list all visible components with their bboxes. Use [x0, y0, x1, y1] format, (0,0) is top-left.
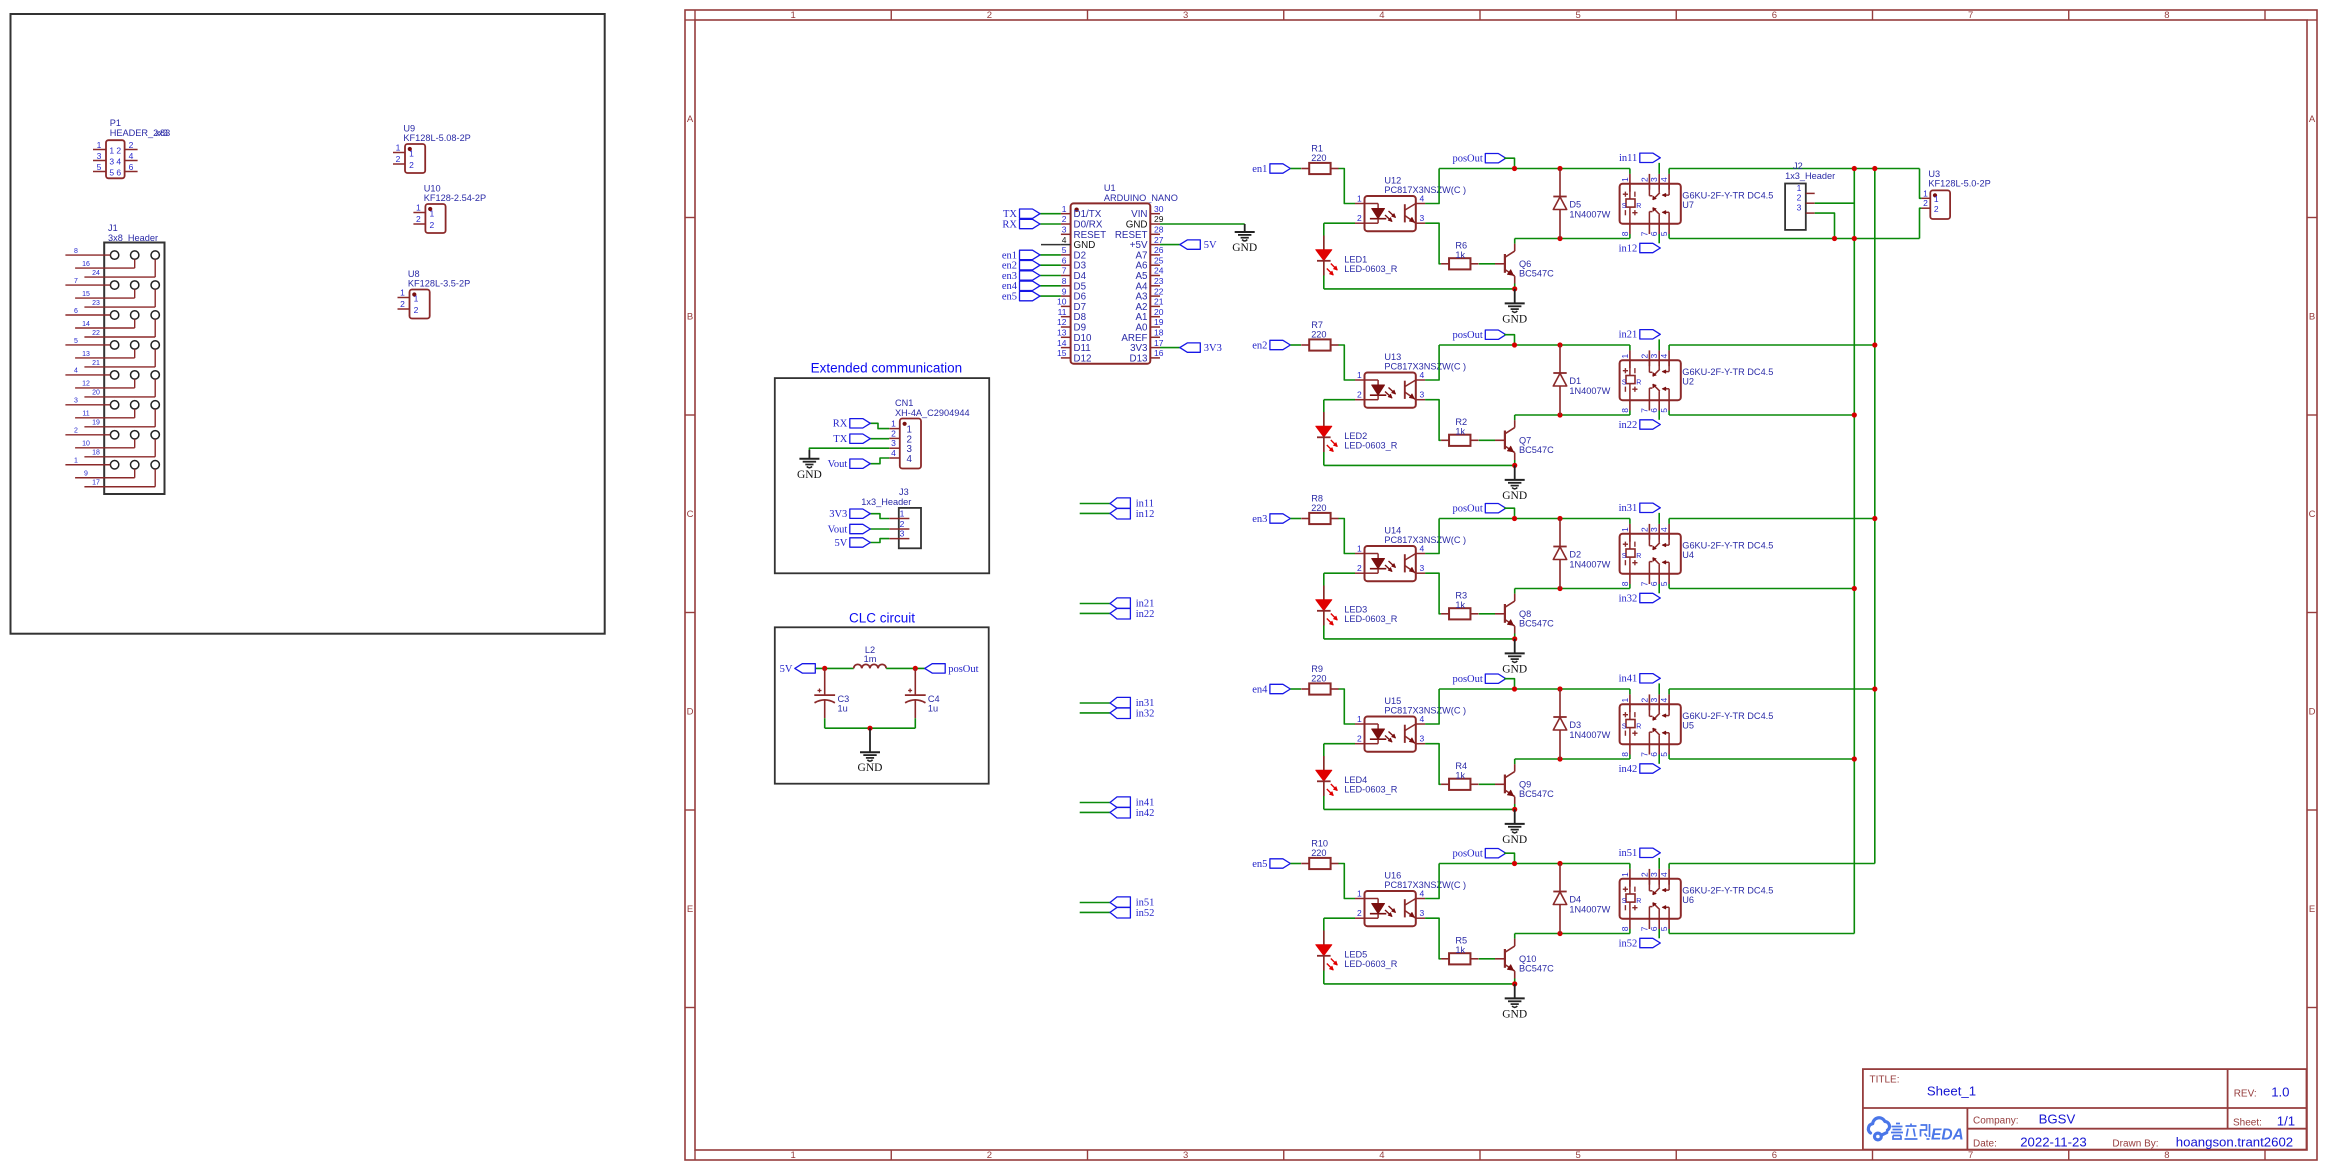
svg-text:S: S: [1622, 553, 1627, 560]
svg-text:A: A: [2309, 114, 2316, 125]
svg-text:in42: in42: [1136, 808, 1155, 819]
svg-text:3: 3: [1183, 10, 1188, 21]
svg-text:3: 3: [1649, 527, 1659, 532]
svg-text:4: 4: [1062, 235, 1067, 245]
svg-text:1x3_Header: 1x3_Header: [861, 497, 911, 507]
svg-text:posOut: posOut: [1452, 849, 1482, 860]
svg-text:10: 10: [82, 441, 90, 448]
svg-text:PC817X3NSZW(C ): PC817X3NSZW(C ): [1384, 535, 1466, 545]
svg-text:LED-0603_R: LED-0603_R: [1344, 614, 1397, 624]
svg-text:in12: in12: [1619, 243, 1638, 254]
svg-text:3V3: 3V3: [829, 509, 847, 520]
svg-text:20: 20: [92, 390, 100, 397]
svg-text:2: 2: [400, 299, 405, 309]
svg-text:U2: U2: [1682, 377, 1694, 387]
svg-text:R: R: [1636, 723, 1641, 730]
svg-text:1: 1: [1357, 714, 1362, 724]
svg-text:5: 5: [1659, 231, 1669, 236]
svg-text:8: 8: [1620, 231, 1630, 236]
svg-text:2: 2: [1934, 204, 1939, 214]
svg-text:5: 5: [1062, 245, 1067, 255]
svg-text:4: 4: [74, 368, 78, 375]
svg-text:en5: en5: [1002, 292, 1017, 303]
svg-text:3: 3: [74, 398, 78, 405]
svg-text:6: 6: [1649, 581, 1659, 586]
svg-text:Date:: Date:: [1973, 1138, 1997, 1149]
svg-text:G6KU-2F-Y-TR DC4.5: G6KU-2F-Y-TR DC4.5: [1682, 367, 1773, 377]
svg-text:in32: in32: [1619, 593, 1638, 604]
svg-text:13: 13: [82, 351, 90, 358]
svg-text:KF128L-3.5-2P: KF128L-3.5-2P: [408, 279, 470, 289]
svg-text:4: 4: [1379, 10, 1384, 21]
svg-text:3: 3: [97, 151, 102, 161]
svg-text:8: 8: [1620, 581, 1630, 586]
svg-text:28: 28: [1154, 225, 1164, 235]
svg-text:5V: 5V: [1204, 240, 1217, 251]
svg-text:Q6: Q6: [1519, 259, 1531, 269]
svg-text:BGSV: BGSV: [2039, 1111, 2076, 1126]
svg-text:2: 2: [1357, 563, 1362, 573]
svg-text:8: 8: [1620, 926, 1630, 931]
svg-text:D1: D1: [1569, 376, 1581, 386]
svg-text:15: 15: [1057, 348, 1067, 358]
svg-text:1k: 1k: [1455, 945, 1465, 955]
svg-text:1u: 1u: [928, 703, 938, 713]
svg-text:5: 5: [74, 338, 78, 345]
svg-text:3: 3: [1797, 203, 1802, 213]
svg-text:4: 4: [907, 454, 913, 465]
svg-text:220: 220: [1311, 848, 1326, 858]
svg-text:4: 4: [1379, 1150, 1384, 1161]
svg-text:R: R: [1636, 203, 1641, 210]
svg-text:GND: GND: [1502, 834, 1527, 846]
svg-text:1: 1: [109, 145, 114, 155]
svg-text:1: 1: [74, 458, 78, 465]
svg-text:3: 3: [1420, 390, 1425, 400]
svg-text:posOut: posOut: [1452, 330, 1482, 341]
svg-text:2: 2: [414, 305, 419, 315]
svg-text:E: E: [2309, 904, 2315, 915]
svg-text:en3: en3: [1252, 514, 1267, 525]
svg-text:1: 1: [430, 208, 435, 218]
svg-text:G6KU-2F-Y-TR DC4.5: G6KU-2F-Y-TR DC4.5: [1682, 886, 1773, 896]
svg-text:1: 1: [1062, 204, 1067, 214]
svg-text:8: 8: [1062, 276, 1067, 286]
svg-text:U8: U8: [408, 269, 420, 279]
svg-text:1: 1: [1620, 527, 1630, 532]
svg-text:4: 4: [1420, 194, 1425, 204]
svg-text:5: 5: [1659, 408, 1669, 413]
svg-text:1: 1: [416, 203, 421, 213]
svg-text:Sheet:: Sheet:: [2233, 1118, 2262, 1129]
svg-text:8: 8: [2164, 1150, 2169, 1161]
svg-text:GND: GND: [1502, 663, 1527, 675]
svg-text:Company:: Company:: [1973, 1115, 2019, 1126]
svg-text:10: 10: [1057, 297, 1067, 307]
svg-text:GND: GND: [1502, 490, 1527, 502]
svg-text:2: 2: [1639, 354, 1649, 359]
svg-text:posOut: posOut: [948, 664, 978, 675]
svg-text:posOut: posOut: [1452, 154, 1482, 165]
svg-text:J1: J1: [108, 223, 118, 233]
svg-text:Sheet_1: Sheet_1: [1927, 1083, 1976, 1098]
svg-text:4: 4: [1420, 544, 1425, 554]
svg-text:6: 6: [1772, 1150, 1777, 1161]
svg-text:3: 3: [1649, 698, 1659, 703]
svg-text:3V3: 3V3: [1204, 343, 1222, 354]
svg-text:3: 3: [1183, 1150, 1188, 1161]
svg-text:in42: in42: [1619, 764, 1638, 775]
svg-text:4: 4: [891, 448, 896, 458]
svg-text:23: 23: [92, 300, 100, 307]
svg-text:R: R: [1636, 379, 1641, 386]
svg-text:3: 3: [1420, 908, 1425, 918]
svg-text:6: 6: [1772, 10, 1777, 21]
svg-text:19: 19: [92, 420, 100, 427]
svg-text:Extended communication: Extended communication: [811, 361, 963, 376]
svg-text:5: 5: [1575, 10, 1580, 21]
svg-text:BC547C: BC547C: [1519, 789, 1554, 799]
svg-text:S: S: [1622, 898, 1627, 905]
svg-text:4: 4: [129, 151, 134, 161]
svg-text:LED3: LED3: [1344, 605, 1367, 615]
svg-text:BC547C: BC547C: [1519, 963, 1554, 973]
svg-text:U10: U10: [424, 184, 441, 194]
svg-text:in21: in21: [1619, 330, 1638, 341]
svg-text:D4: D4: [1569, 895, 1581, 905]
svg-text:2: 2: [987, 10, 992, 21]
svg-text:27: 27: [1154, 235, 1164, 245]
svg-text:x83: x83: [155, 128, 170, 138]
svg-text:4: 4: [1420, 714, 1425, 724]
svg-text:2: 2: [74, 428, 78, 435]
svg-text:E: E: [687, 904, 693, 915]
svg-text:6: 6: [1649, 926, 1659, 931]
svg-text:1: 1: [1923, 188, 1928, 198]
svg-text:6: 6: [116, 167, 121, 177]
svg-text:2: 2: [1639, 177, 1649, 182]
svg-text:1x3_Header: 1x3_Header: [1785, 171, 1835, 181]
svg-text:220: 220: [1311, 153, 1326, 163]
svg-text:2: 2: [1923, 198, 1928, 208]
svg-text:LED-0603_R: LED-0603_R: [1344, 441, 1397, 451]
svg-text:18: 18: [92, 450, 100, 457]
svg-text:4: 4: [116, 156, 121, 166]
svg-text:30: 30: [1154, 204, 1164, 214]
svg-text:24: 24: [1154, 266, 1164, 276]
svg-text:6: 6: [129, 162, 134, 172]
svg-text:LED4: LED4: [1344, 775, 1367, 785]
svg-text:2: 2: [1639, 872, 1649, 877]
svg-text:26: 26: [1154, 245, 1164, 255]
svg-text:1: 1: [1620, 354, 1630, 359]
svg-text:7: 7: [1639, 581, 1649, 586]
svg-text:1: 1: [1620, 698, 1630, 703]
svg-text:1: 1: [891, 419, 896, 429]
svg-text:LED-0603_R: LED-0603_R: [1344, 264, 1397, 274]
svg-text:hoangson.trant2602: hoangson.trant2602: [2176, 1134, 2293, 1149]
svg-text:R: R: [1636, 898, 1641, 905]
svg-text:G6KU-2F-Y-TR DC4.5: G6KU-2F-Y-TR DC4.5: [1682, 191, 1773, 201]
svg-text:4: 4: [1420, 370, 1425, 380]
svg-text:J2: J2: [1793, 161, 1803, 171]
svg-text:2: 2: [1357, 908, 1362, 918]
svg-text:12: 12: [82, 381, 90, 388]
svg-text:1: 1: [97, 140, 102, 150]
svg-text:7: 7: [74, 278, 78, 285]
svg-text:4: 4: [1659, 872, 1669, 877]
svg-text:9: 9: [1062, 286, 1067, 296]
svg-text:D13: D13: [1130, 353, 1149, 364]
svg-text:1N4007W: 1N4007W: [1569, 386, 1610, 396]
svg-text:1: 1: [1797, 183, 1802, 193]
svg-text:6: 6: [1649, 231, 1659, 236]
svg-text:KF128-2.54-2P: KF128-2.54-2P: [424, 193, 486, 203]
svg-text:220: 220: [1311, 503, 1326, 513]
svg-text:3: 3: [1420, 213, 1425, 223]
svg-text:7: 7: [1968, 1150, 1973, 1161]
svg-text:S: S: [1622, 723, 1627, 730]
svg-text:1: 1: [1357, 889, 1362, 899]
svg-text:8: 8: [2164, 10, 2169, 21]
svg-text:in41: in41: [1619, 674, 1638, 685]
svg-text:6: 6: [1649, 752, 1659, 757]
svg-text:4: 4: [1659, 354, 1669, 359]
svg-text:GND: GND: [1502, 313, 1527, 325]
svg-text:LED2: LED2: [1344, 431, 1367, 441]
svg-text:2: 2: [1062, 214, 1067, 224]
svg-text:EDA: EDA: [1931, 1127, 1964, 1144]
svg-text:3: 3: [900, 529, 905, 539]
svg-text:LED-0603_R: LED-0603_R: [1344, 785, 1397, 795]
svg-text:1: 1: [900, 509, 905, 519]
svg-text:18: 18: [1154, 328, 1164, 338]
svg-text:D: D: [2309, 707, 2316, 718]
svg-text:1: 1: [414, 293, 419, 303]
svg-text:D3: D3: [1569, 720, 1581, 730]
svg-text:2: 2: [129, 140, 134, 150]
svg-text:Q9: Q9: [1519, 779, 1531, 789]
svg-text:7: 7: [1639, 752, 1649, 757]
svg-text:22: 22: [92, 330, 100, 337]
svg-text:1: 1: [1357, 370, 1362, 380]
svg-text:ARDUINO_NANO: ARDUINO_NANO: [1104, 193, 1178, 203]
svg-text:2: 2: [1639, 527, 1649, 532]
svg-text:5V: 5V: [834, 538, 847, 549]
svg-text:3: 3: [891, 438, 896, 448]
svg-text:S: S: [1622, 379, 1627, 386]
svg-text:U4: U4: [1682, 550, 1694, 560]
svg-text:PC817X3NSZW(C ): PC817X3NSZW(C ): [1384, 880, 1466, 890]
svg-text:in51: in51: [1619, 848, 1638, 859]
svg-text:1k: 1k: [1455, 426, 1465, 436]
svg-text:PC817X3NSZW(C ): PC817X3NSZW(C ): [1384, 185, 1466, 195]
svg-text:J3: J3: [899, 487, 909, 497]
svg-text:in52: in52: [1136, 908, 1155, 919]
svg-text:S: S: [1622, 203, 1627, 210]
svg-text:1.0: 1.0: [2271, 1084, 2289, 1099]
svg-text:RX: RX: [1002, 219, 1017, 230]
svg-text:LED1: LED1: [1344, 255, 1367, 265]
svg-text:17: 17: [1154, 338, 1164, 348]
svg-text:BC547C: BC547C: [1519, 445, 1554, 455]
svg-text:Vout: Vout: [828, 524, 848, 535]
svg-text:KF128L-5.08-2P: KF128L-5.08-2P: [403, 133, 470, 143]
svg-text:in31: in31: [1619, 503, 1638, 514]
svg-text:R: R: [1636, 553, 1641, 560]
svg-text:en4: en4: [1252, 684, 1268, 695]
svg-text:posOut: posOut: [1452, 504, 1482, 515]
svg-text:BC547C: BC547C: [1519, 268, 1554, 278]
svg-text:7: 7: [1968, 10, 1973, 21]
svg-text:Q7: Q7: [1519, 435, 1531, 445]
svg-text:1: 1: [409, 148, 414, 158]
svg-text:en1: en1: [1252, 164, 1267, 175]
svg-text:REV:: REV:: [2234, 1088, 2257, 1099]
svg-text:22: 22: [1154, 286, 1164, 296]
svg-text:XH-4A_C2904944: XH-4A_C2904944: [895, 408, 970, 418]
svg-text:3: 3: [1649, 872, 1659, 877]
svg-text:3: 3: [1420, 563, 1425, 573]
svg-text:en2: en2: [1252, 340, 1267, 351]
svg-text:RX: RX: [833, 419, 848, 430]
svg-text:6: 6: [1062, 255, 1067, 265]
svg-text:1u: 1u: [838, 703, 848, 713]
svg-text:7: 7: [1639, 231, 1649, 236]
svg-text:GND: GND: [797, 469, 822, 481]
svg-text:16: 16: [1154, 348, 1164, 358]
svg-text:5: 5: [1575, 1150, 1580, 1161]
svg-text:3: 3: [1649, 354, 1659, 359]
svg-text:1k: 1k: [1455, 250, 1465, 260]
svg-text:Q8: Q8: [1519, 609, 1531, 619]
svg-text:U7: U7: [1682, 200, 1694, 210]
svg-text:in11: in11: [1619, 153, 1637, 164]
svg-text:8: 8: [1620, 408, 1630, 413]
svg-text:8: 8: [74, 248, 78, 255]
svg-text:PC817X3NSZW(C ): PC817X3NSZW(C ): [1384, 362, 1466, 372]
svg-text:7: 7: [1639, 408, 1649, 413]
svg-text:7: 7: [1639, 926, 1649, 931]
svg-text:1: 1: [1620, 177, 1630, 182]
svg-text:Vout: Vout: [828, 459, 848, 470]
svg-text:6: 6: [74, 308, 78, 315]
svg-text:2: 2: [900, 519, 905, 529]
svg-text:1: 1: [1934, 194, 1939, 204]
svg-text:11: 11: [82, 411, 89, 418]
svg-text:C: C: [687, 509, 694, 520]
svg-text:16: 16: [82, 261, 90, 268]
svg-text:1N4007W: 1N4007W: [1569, 560, 1610, 570]
svg-text:5: 5: [1659, 926, 1669, 931]
svg-text:2: 2: [116, 145, 121, 155]
svg-text:A: A: [687, 114, 694, 125]
svg-text:LED-0603_R: LED-0603_R: [1344, 959, 1397, 969]
svg-text:G6KU-2F-Y-TR DC4.5: G6KU-2F-Y-TR DC4.5: [1682, 541, 1773, 551]
svg-text:21: 21: [1154, 297, 1164, 307]
svg-text:BC547C: BC547C: [1519, 618, 1554, 628]
svg-text:14: 14: [82, 321, 90, 328]
svg-text:9: 9: [84, 471, 88, 478]
svg-text:21: 21: [92, 360, 100, 367]
svg-text:PC817X3NSZW(C ): PC817X3NSZW(C ): [1384, 706, 1466, 716]
svg-text:2: 2: [1797, 193, 1802, 203]
svg-text:GND: GND: [858, 762, 883, 774]
svg-text:2022-11-23: 2022-11-23: [2020, 1134, 2086, 1149]
svg-text:en5: en5: [1252, 859, 1267, 870]
svg-text:6: 6: [1649, 408, 1659, 413]
svg-text:TITLE:: TITLE:: [1870, 1075, 1900, 1086]
svg-text:2: 2: [1639, 698, 1649, 703]
svg-text:5: 5: [97, 162, 102, 172]
svg-text:GND: GND: [1502, 1008, 1527, 1020]
svg-text:220: 220: [1311, 329, 1326, 339]
svg-text:2: 2: [416, 214, 421, 224]
svg-text:24: 24: [92, 270, 100, 277]
svg-text:220: 220: [1311, 673, 1326, 683]
svg-text:4: 4: [1659, 177, 1669, 182]
svg-text:5: 5: [1659, 581, 1669, 586]
svg-text:in32: in32: [1136, 708, 1155, 719]
svg-text:in22: in22: [1619, 420, 1638, 431]
svg-text:3: 3: [109, 156, 114, 166]
svg-text:1N4007W: 1N4007W: [1569, 210, 1610, 220]
svg-text:7: 7: [1062, 266, 1067, 276]
svg-text:1: 1: [400, 288, 405, 298]
svg-text:14: 14: [1057, 338, 1067, 348]
svg-text:in12: in12: [1136, 509, 1155, 520]
svg-text:1: 1: [790, 10, 795, 21]
svg-text:in52: in52: [1619, 938, 1638, 949]
svg-text:25: 25: [1154, 255, 1164, 265]
svg-text:1N4007W: 1N4007W: [1569, 905, 1610, 915]
svg-text:12: 12: [1057, 317, 1067, 327]
svg-text:D5: D5: [1569, 200, 1581, 210]
svg-text:D: D: [687, 707, 694, 718]
svg-text:P1: P1: [110, 118, 121, 128]
svg-text:8: 8: [1620, 752, 1630, 757]
svg-text:23: 23: [1154, 276, 1164, 286]
svg-text:Drawn By:: Drawn By:: [2112, 1138, 2158, 1149]
svg-text:4: 4: [1659, 527, 1669, 532]
svg-text:19: 19: [1154, 317, 1164, 327]
svg-text:U5: U5: [1682, 721, 1694, 731]
svg-text:D12: D12: [1074, 353, 1092, 364]
svg-text:11: 11: [1058, 307, 1067, 317]
svg-text:3: 3: [1649, 177, 1659, 182]
svg-text:LED5: LED5: [1344, 950, 1367, 960]
svg-text:3: 3: [1420, 734, 1425, 744]
svg-text:Q10: Q10: [1519, 954, 1536, 964]
svg-text:2: 2: [1357, 390, 1362, 400]
svg-text:3: 3: [1062, 225, 1067, 235]
svg-text:2: 2: [987, 1150, 992, 1161]
svg-text:5: 5: [109, 167, 114, 177]
svg-text:CLC circuit: CLC circuit: [849, 610, 915, 625]
svg-text:1k: 1k: [1455, 600, 1465, 610]
svg-text:5V: 5V: [780, 664, 793, 675]
svg-text:posOut: posOut: [1452, 674, 1482, 685]
svg-text:B: B: [2309, 312, 2315, 323]
svg-text:15: 15: [82, 291, 90, 298]
svg-text:U1: U1: [1104, 183, 1116, 193]
svg-text:1: 1: [1357, 194, 1362, 204]
svg-text:1/1: 1/1: [2277, 1114, 2295, 1129]
svg-text:2: 2: [396, 154, 401, 164]
svg-text:4: 4: [1659, 698, 1669, 703]
svg-text:B: B: [687, 312, 693, 323]
svg-text:29: 29: [1154, 214, 1164, 224]
